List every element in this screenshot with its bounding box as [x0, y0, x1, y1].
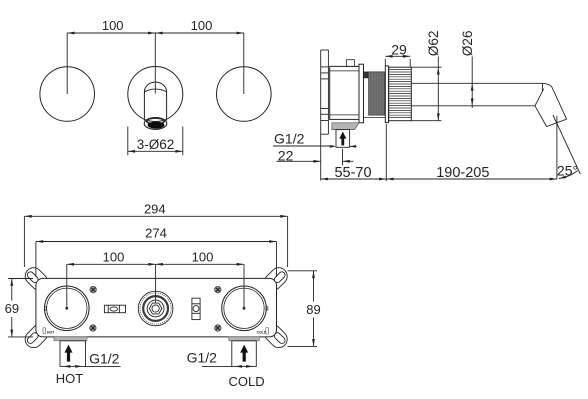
svg-text:25°: 25°	[557, 163, 578, 179]
svg-text:HOT: HOT	[56, 371, 84, 386]
svg-text:100: 100	[102, 18, 124, 33]
svg-text:COLD: COLD	[257, 330, 267, 334]
svg-text:Ø26: Ø26	[460, 31, 475, 57]
svg-text:89: 89	[306, 302, 320, 317]
svg-text:274: 274	[145, 226, 167, 241]
svg-text:69: 69	[5, 301, 19, 316]
svg-text:3-Ø62: 3-Ø62	[137, 137, 175, 152]
svg-text:HOT: HOT	[47, 330, 55, 334]
svg-text:55-70: 55-70	[334, 165, 371, 181]
svg-text:COLD: COLD	[229, 374, 265, 389]
svg-text:100: 100	[103, 250, 125, 265]
svg-text:G1/2: G1/2	[274, 131, 305, 147]
svg-text:29: 29	[391, 41, 407, 57]
svg-text:100: 100	[191, 18, 213, 33]
svg-text:G1/2: G1/2	[89, 350, 120, 366]
svg-text:100: 100	[192, 250, 214, 265]
svg-text:G1/2: G1/2	[187, 350, 218, 366]
svg-text:294: 294	[144, 201, 166, 216]
svg-text:190-205: 190-205	[436, 165, 489, 181]
svg-text:Ø62: Ø62	[426, 31, 441, 57]
